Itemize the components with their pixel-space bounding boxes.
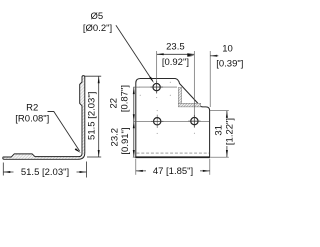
corner fold hatched band (horizontal part) (178, 103, 200, 107)
svg-text:[R0.08"]: [R0.08"] (15, 113, 49, 124)
R2 leader (48, 112, 82, 154)
label Ø5 (83, 11, 112, 34)
dimension 23.5 top (157, 42, 195, 69)
svg-text:[0.39"]: [0.39"] (216, 59, 243, 70)
corner fold hatched band (vertical part) (178, 88, 181, 104)
svg-text:[0.92"]: [0.92"] (162, 57, 189, 68)
svg-text:[1.22"]: [1.22"] (225, 118, 236, 145)
svg-text:47 [1.85"]: 47 [1.85"] (153, 166, 193, 177)
label R2 (15, 103, 49, 125)
vertical tick through left middle hole (156, 115, 158, 128)
svg-text:[Ø0.2"]: [Ø0.2"] (83, 23, 112, 34)
hole top (Ø5) (151, 81, 163, 93)
hole middle-right (188, 115, 200, 127)
dimension 51.5 bottom of side view (3, 162, 86, 179)
svg-text:Ø5: Ø5 (90, 11, 103, 22)
svg-text:23.5: 23.5 (166, 42, 185, 53)
svg-text:R2: R2 (26, 103, 38, 114)
hole middle-left (151, 118, 163, 125)
bend line (dashed) at bottom of front view (137, 152, 210, 154)
extension line up from right hole (193, 51, 195, 128)
extension line up from top hole (156, 51, 158, 94)
side view L-profile body (3, 76, 85, 160)
svg-text:10: 10 (222, 44, 233, 55)
leader for Ø5 (116, 25, 154, 83)
dimension 10 top right (187, 44, 243, 108)
dimension 51.5 right of side view (vertical) (85, 76, 101, 157)
dimension 31 right side (210, 111, 236, 158)
centermark dots (140, 82, 195, 134)
front view plate outline (135, 79, 210, 158)
svg-text:[0.87"]: [0.87"] (120, 85, 131, 112)
svg-text:51.5 [2.03"]: 51.5 [2.03"] (86, 92, 97, 140)
centerline through middle holes (136, 120, 209, 122)
centerline through top hole (140, 86, 178, 88)
svg-text:[0.91"]: [0.91"] (120, 127, 131, 154)
svg-text:22: 22 (109, 98, 120, 109)
stacked dimension 22 / 23.2 left of front view (109, 85, 141, 157)
dimension 47 bottom of front view (136, 159, 210, 177)
svg-text:51.5 [2.03"]: 51.5 [2.03"] (21, 167, 69, 178)
svg-text:31: 31 (214, 125, 225, 136)
